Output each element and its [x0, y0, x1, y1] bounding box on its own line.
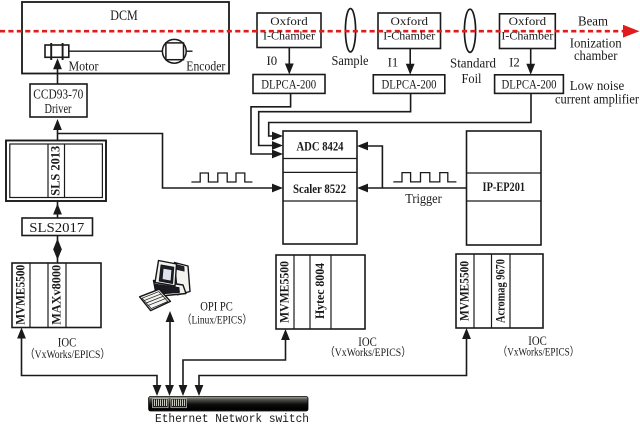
svg-text:Oxford: Oxford [391, 15, 429, 28]
svg-text:DLPCA-200: DLPCA-200 [502, 78, 557, 92]
svg-text:Oxford: Oxford [509, 15, 547, 28]
svg-text:DLPCA-200: DLPCA-200 [382, 78, 437, 92]
svg-text:I0: I0 [266, 54, 277, 68]
svg-text:I-Chamber: I-Chamber [501, 30, 553, 43]
svg-text:Driver: Driver [45, 101, 72, 116]
svg-text:（VxWorks/EPICS）: （VxWorks/EPICS） [325, 345, 411, 359]
svg-text:Encoder: Encoder [186, 58, 225, 73]
svg-text:MVME5500: MVME5500 [14, 265, 28, 325]
svg-text:Sample: Sample [332, 53, 369, 68]
svg-text:Oxford: Oxford [270, 15, 308, 28]
svg-text:Ethernet Network switch: Ethernet Network switch [155, 412, 309, 424]
svg-text:OPI PC: OPI PC [200, 300, 233, 314]
svg-text:I-Chamber: I-Chamber [383, 30, 435, 43]
svg-text:DCM: DCM [110, 8, 138, 24]
svg-text:Hytec 8004: Hytec 8004 [313, 263, 327, 319]
svg-text:MVME5500: MVME5500 [278, 261, 292, 323]
svg-text:（Linux/EPICS）: （Linux/EPICS） [182, 313, 252, 327]
svg-text:ADC 8424: ADC 8424 [297, 140, 344, 154]
svg-text:（VxWorks/EPICS）: （VxWorks/EPICS） [25, 347, 110, 361]
svg-text:DLPCA-200: DLPCA-200 [261, 78, 316, 92]
svg-text:SLS2017: SLS2017 [29, 220, 84, 235]
svg-text:SLS 2013: SLS 2013 [48, 146, 62, 196]
svg-text:CCD93-70: CCD93-70 [33, 87, 83, 102]
svg-text:Trigger: Trigger [405, 191, 442, 206]
svg-text:current amplifier: current amplifier [555, 91, 639, 106]
svg-text:I2: I2 [509, 56, 520, 70]
svg-text:Scaler 8522: Scaler 8522 [293, 182, 346, 196]
svg-text:I1: I1 [388, 56, 399, 70]
svg-text:（VxWorks/EPICS）: （VxWorks/EPICS） [498, 344, 579, 358]
svg-text:MAXv8000: MAXv8000 [49, 265, 63, 325]
svg-text:Beam: Beam [578, 14, 608, 29]
svg-text:Motor: Motor [69, 58, 99, 73]
svg-text:IP-EP201: IP-EP201 [483, 180, 526, 194]
svg-text:MVME5500: MVME5500 [458, 261, 472, 321]
svg-text:Foil: Foil [462, 71, 482, 86]
svg-text:chamber: chamber [574, 48, 618, 63]
svg-text:Acromag 9670: Acromag 9670 [493, 259, 507, 323]
svg-text:I-Chamber: I-Chamber [263, 30, 315, 43]
svg-text:Standard: Standard [450, 55, 496, 70]
